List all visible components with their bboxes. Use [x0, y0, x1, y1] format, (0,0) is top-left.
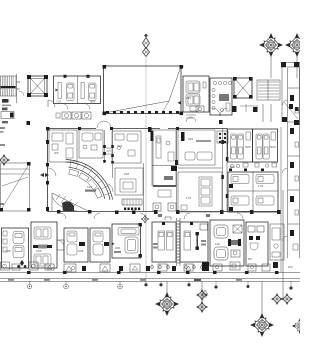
corridor wall x281: [280, 127, 282, 272]
door arc west wall: [48, 168, 56, 176]
room 029: [178, 130, 215, 165]
corridor H mid: [152, 166, 222, 172]
bottom room B10: [270, 224, 284, 260]
bottom room B9: [246, 222, 268, 266]
svg-text:#1: #1: [17, 80, 21, 84]
room L2: [79, 130, 103, 158]
elevator E1: [27, 75, 48, 97]
svg-text:129: 129: [87, 185, 92, 189]
svg-text:C08: C08: [5, 249, 11, 253]
ramp block left: [0, 162, 31, 212]
tree symbol T1 top right: [259, 33, 283, 78]
svg-text:118: 118: [215, 242, 220, 246]
room 179: [178, 172, 222, 212]
svg-text:178: 178: [258, 184, 263, 188]
corridor arcs row: [60, 213, 243, 219]
corridor east vertical: [221, 128, 228, 212]
shaft right top: [281, 62, 300, 125]
stair S2: [257, 80, 280, 100]
bottom room B4: [90, 228, 110, 262]
centerline marker node A: [143, 34, 150, 282]
vestibule fixtures: [229, 163, 277, 171]
svg-text:029: 029: [188, 137, 193, 141]
svg-text:228: 228: [124, 172, 129, 176]
midblock left wall: [46, 128, 56, 211]
flower mark left: [0, 154, 10, 166]
bottom room B5: [112, 223, 142, 258]
svg-text:D9: D9: [248, 257, 252, 261]
midblock top wall: [46, 121, 227, 132]
room N28: [228, 129, 253, 162]
room tall left-center: [153, 130, 176, 211]
svg-text:206: 206: [115, 246, 120, 250]
svg-text:C09: C09: [36, 249, 42, 253]
bottom marker diamonds M2: [271, 293, 293, 305]
bottom marker diamonds M1: [196, 281, 208, 313]
tree T2 stem wire: [296, 56, 298, 78]
room Y23 pair: [54, 75, 101, 110]
corridor center vertical: [151, 128, 179, 212]
room N29: [253, 129, 278, 162]
entrance corridor: [103, 130, 114, 164]
flower mark mid: [141, 215, 150, 224]
lobby hatch strip: [122, 199, 142, 210]
lobby text 129: [85, 185, 96, 192]
bottom tree U1: [155, 281, 179, 316]
svg-text:179: 179: [186, 196, 191, 200]
right column rooms: [283, 68, 300, 258]
room 228: [115, 168, 143, 195]
bottom tree U2: [250, 281, 274, 337]
centerline wire: [145, 56, 147, 281]
svg-text:N29: N29: [270, 145, 276, 149]
corridor piece C1: [57, 240, 64, 250]
svg-text:Y23: Y23: [56, 100, 62, 104]
label text block left: [1, 80, 21, 123]
svg-text:WC: WC: [288, 265, 294, 269]
bottom room B7: [180, 222, 208, 262]
sprinkler row bottom: [151, 264, 204, 269]
tree symbol T2 top right: [285, 33, 309, 78]
hall hatch row: [106, 111, 179, 114]
svg-text:009: 009: [90, 100, 95, 104]
svg-text:N28: N28: [245, 145, 251, 149]
between-rows marks: [186, 104, 299, 124]
terrace line B: [0, 279, 300, 282]
bottom outer wall: [0, 271, 300, 274]
svg-text:S09: S09: [78, 249, 84, 253]
room W5: [49, 130, 77, 162]
tree T1 stem wire: [270, 56, 272, 78]
room SE quad: [228, 165, 278, 212]
svg-text:029: 029: [117, 144, 122, 148]
svg-text:002: 002: [230, 165, 235, 169]
stair S1 top-left: [1, 74, 25, 103]
midblock bottom wall: [47, 210, 281, 214]
hall H1 large: [103, 65, 184, 115]
terrace line A: [0, 278, 300, 280]
lobby stair fan: [52, 193, 88, 211]
bottom tree U3 edge: [292, 318, 308, 334]
bottom room B8: [210, 220, 244, 266]
bottom room B3: [64, 228, 88, 262]
corridor bottom marks: [1, 262, 294, 272]
hatch wall column: [177, 218, 181, 266]
room WC1: [210, 78, 232, 115]
elevator E2: [233, 77, 253, 99]
long stem x283: [282, 190, 284, 299]
hall ramp wire: [105, 68, 181, 114]
room 239: [183, 76, 209, 112]
room 029 mid top: [112, 131, 141, 163]
bottom room B2: [31, 222, 57, 268]
dots block right of 029: [217, 131, 228, 143]
left margin marks: [0, 121, 30, 205]
fixtures row F1: [56, 112, 91, 119]
door D1: [48, 100, 55, 107]
door arrows west: [40, 173, 49, 177]
lobby east wall: [108, 163, 144, 211]
grid bubbles: [27, 281, 292, 297]
svg-text:239: 239: [186, 96, 191, 100]
lobby curved desk: [66, 160, 113, 201]
bottom room B1: [2, 228, 29, 268]
bottom room B6: [152, 217, 176, 262]
svg-text:W5: W5: [54, 151, 59, 155]
